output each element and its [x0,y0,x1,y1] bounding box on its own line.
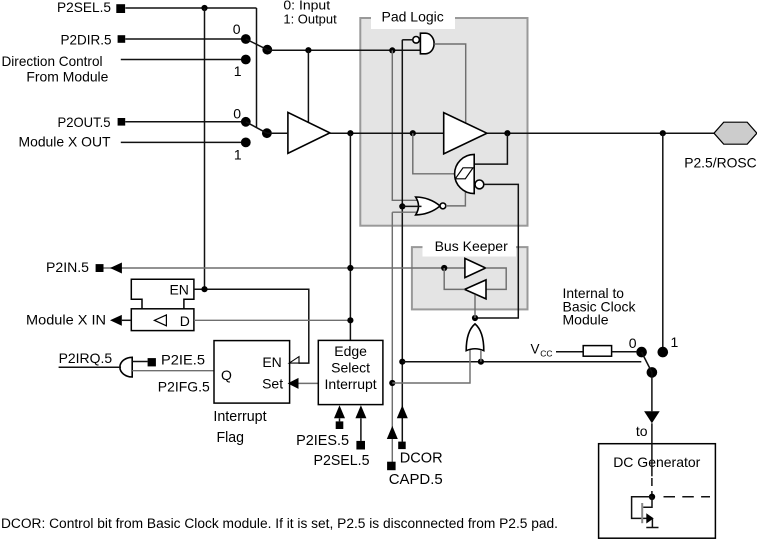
terminal square P2OUT.5 [118,118,126,126]
Schmitt trigger U5 input buffer [455,154,475,193]
node pad driver output [504,130,510,136]
bus keeper forward buffer [465,258,486,277]
hysteresis symbol [455,168,473,179]
wire resistor to switch position 0 [612,351,637,353]
transistor Q1 gate loop wire [632,497,652,519]
wire direction net branch down to NOR top input [392,50,419,200]
terminal square CAPD.5 [387,462,396,471]
wire pad net down to switch position 1 [662,133,664,352]
svg-text:Direction Control: Direction Control [2,53,103,69]
svg-text:Select: Select [331,359,370,375]
mux1 switch wiper [246,39,267,50]
mux2 switch wiper [246,122,267,133]
svg-text:DCOR: DCOR [400,450,443,467]
buffer U1 (output path from mux2) [288,112,330,153]
wire keeper enable down to OR [474,295,476,318]
svg-text:Module: Module [563,311,609,327]
wire P2IES.5 [339,418,341,421]
wire input net vertical to Edge Select [349,133,351,340]
Pad Logic block background [360,10,527,226]
node main net to Schmitt input [410,130,416,136]
bubble on Schmitt U5 enable [475,180,484,189]
wire mux2 common to buffer U1 [267,132,288,134]
mux1 switch: common node [262,45,272,55]
transistor Q1 source arrow [646,513,653,523]
node pad net to ROSC switch 1 [660,130,666,136]
svg-text:1: 1 [234,63,242,79]
terminal square P2SEL.5 [116,4,125,13]
svg-text:1: 1 [234,146,242,162]
svg-text:0: Input: 0: Input [283,0,330,13]
node CAPD.5 to OR input [389,380,395,386]
svg-text:Set: Set [262,376,283,392]
svg-text:1: Output: 1: Output [283,13,337,27]
svg-text:Bus Keeper: Bus Keeper [435,238,508,254]
svg-text:From Module: From Module [26,68,108,84]
svg-text:P2DIR.5: P2DIR.5 [61,31,112,47]
svg-text:Flag: Flag [217,430,245,446]
svg-text:Q: Q [221,367,232,383]
svg-text:P2SEL.5: P2SEL.5 [314,452,370,469]
svg-text:Edge: Edge [334,343,367,359]
transistor Q1 source wire [651,518,653,527]
OR gate U6 bus keeper enable [466,324,484,351]
svg-text:P2OUT.5: P2OUT.5 [58,114,111,130]
svg-text:P2IES.5: P2IES.5 [296,432,349,449]
svg-text:P2SEL.5: P2SEL.5 [57,0,111,15]
wire pad feedback to Schmitt gate [475,133,508,164]
mux1 switch: input 1 node [241,55,251,65]
mux2 switch: input 0 node [241,117,251,127]
wire direction control [121,59,246,61]
transistor Q1 gate bar [641,503,643,523]
interrupt flag box [214,341,290,404]
wire P2IN.5 / pad sense line [104,267,466,269]
svg-text:D: D [180,313,190,329]
wire buffer1 enable vertical [307,50,309,122]
arrow P2SEL.5 into Edge Select [355,405,366,418]
svg-text:EN: EN [262,354,281,370]
dashed wire right of node [664,496,711,498]
interrupt flag Set arrow [288,378,299,389]
wire CAPD/OR gate left input [392,349,470,384]
wire main net to Schmitt trigger input [413,133,455,174]
svg-text:P2IE.5: P2IE.5 [161,352,205,368]
Edge Select Interrupt box [318,340,383,404]
bus keeper reverse buffer [465,280,486,299]
wire DCOR into NOR middle input [402,205,421,207]
transistor Q1 drain wire [643,497,652,508]
node OR output / keeper enable [472,315,478,321]
svg-text:1: 1 [671,334,679,350]
DC Generator box [599,444,716,539]
svg-text:to: to [636,423,648,439]
arrow DCOR [397,405,408,418]
terminal square P2DIR.5 [118,35,126,43]
wire P2SEL.5 horizontal [125,7,256,9]
svg-text:P2IFG.5: P2IFG.5 [158,379,210,395]
svg-text:Interrupt: Interrupt [325,376,377,392]
pad driver buffer U3 [444,113,487,154]
node direction net to NAND input [389,47,395,53]
resistor R1 [583,346,611,357]
svg-text:Interrupt: Interrupt [213,409,266,425]
switch node 1 [658,347,669,358]
dashed wire inside DC generator [651,478,653,494]
svg-text:0: 0 [233,21,241,37]
wire Edge Select to Set [299,382,319,384]
terminal square DCOR [398,442,406,450]
label Interrupt Flag [213,409,266,446]
wire P2SEL.5 mux control stub [256,8,258,127]
terminal square P2SEL.5 bottom [356,441,365,450]
node main net to input path [347,130,353,136]
terminal square P2IES.5 [336,421,344,429]
switch node 0 [636,347,647,358]
transistor Q1 bulk tick [646,527,658,529]
switch common node [647,367,658,378]
node DCOR to NOR input [399,203,405,209]
node DCOR to bus keeper OR input [478,359,484,365]
svg-text:DCOR: Control bit from Basic C: DCOR: Control bit from Basic Clock modul… [1,516,558,531]
wire AND output / P2IRQ underline [59,366,121,368]
svg-text:Module X OUT: Module X OUT [19,134,111,150]
node D line to input net [347,317,353,323]
Edge Select Interrupt label [325,343,377,392]
switch wiper [642,352,652,372]
svg-text:P2.5/ROSC: P2.5/ROSC [684,154,757,170]
wire P2DIR.5 [125,38,246,40]
svg-text:DC Generator: DC Generator [613,454,700,470]
wire keeper reverse output loop [444,268,464,289]
wire direction net from mux1 common to NAND [267,49,420,51]
wire switch common to DC generator [651,372,653,411]
label Vcc [531,342,553,359]
NAND U2 output enable gate [420,33,434,54]
wire P2SEL.5 bottom [360,418,362,441]
wire arrow to D box [122,319,132,321]
bubble on NAND U2 top input [413,37,420,44]
svg-text:Pad Logic: Pad Logic [382,8,444,24]
node P2SEL.5 to latch EN [201,286,207,292]
wire interrupt flag Q to AND input [132,370,214,372]
mux2 switch: input 1 node [241,138,251,148]
wire keeper forward output loop [486,268,507,289]
wire P2OUT.5 [125,121,246,123]
Bus Keeper block background [412,239,528,309]
wire D box output to input net [194,319,351,321]
wire Module X OUT [121,141,246,143]
svg-text:CAPD.5: CAPD.5 [389,471,443,488]
mux2 switch: common node [262,128,272,138]
node input net to P2IN line [347,265,353,271]
wire P2IE.5 input [132,361,147,363]
wire latch EN to interrupt flag EN [194,289,309,363]
wire Schmitt enable to bus keeper OR output [475,184,518,318]
arrow to DC generator [644,411,660,423]
pad hexagon P2.5/ROSC [714,122,757,144]
mux1 switch: input 0 node [241,34,251,44]
label Internal to Basic Clock Module [563,285,637,327]
svg-text:0: 0 [629,335,637,351]
latch EN box [131,279,194,309]
node DC generator input [649,494,655,500]
arrow Module X IN [110,315,122,326]
wire into DC generator box [651,423,653,476]
svg-text:P2IRQ.5: P2IRQ.5 [59,350,113,366]
wire main pad net [330,132,714,134]
svg-text:0: 0 [233,106,241,122]
latch D box [131,309,194,331]
node direction net / buffer1 enable [305,47,311,53]
terminal square P2IN.5 [96,264,104,272]
wire CAPD.5 to NOR bottom input [392,211,419,213]
interrupt flag EN wedge [289,357,299,364]
node on P2SEL.5 wire [201,5,207,11]
wire P2SEL.5 vertical to latch EN [204,8,206,289]
wire NOR output to Schmitt enable [446,192,466,206]
wire DCOR net vertical [401,40,403,442]
node P2IN line to bus keeper [441,265,447,271]
svg-text:P2IN.5: P2IN.5 [46,259,89,275]
node DCOR to switch control [399,359,405,365]
svg-text:V: V [531,342,540,357]
svg-text:Module X IN: Module X IN [26,311,106,327]
svg-text:CC: CC [540,349,552,359]
terminal square P2IE.5 [148,358,156,366]
arrow P2IES.5 into Edge Select [334,405,345,418]
bubble on NOR U4 output [440,203,446,209]
wire NAND U2 output to pad driver enable [434,44,466,124]
NOR U4 gate body [416,197,440,215]
wire DCOR net to NAND bubble [402,39,413,41]
wire CAPD.5 net vertical [391,212,393,462]
svg-text:EN: EN [169,282,188,298]
AND gate U7 interrupt request [120,357,132,377]
wire DCOR switch control line [402,361,641,363]
wire OR right input from DCOR [480,350,482,362]
arrow P2IN.5 [110,263,122,274]
wire Vcc to resistor [556,351,583,353]
arrow CAPD.5 [387,426,398,439]
latch clock triangle [154,315,166,326]
